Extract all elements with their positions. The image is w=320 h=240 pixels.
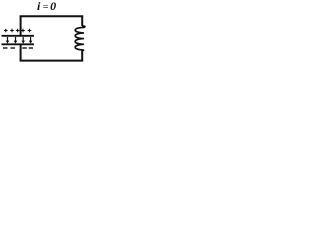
wire bottom horizontal: [20, 60, 84, 62]
plus charges: [4, 29, 31, 33]
svg-text:i = 0: i = 0: [37, 0, 56, 13]
capacitor top plate: [2, 35, 35, 37]
E-field arrow 4: [29, 37, 33, 44]
E-field arrow 1: [6, 37, 10, 44]
wire right lower (coil to bottom-right corner): [81, 51, 83, 61]
E-field arrow 3: [21, 37, 25, 44]
E-field arrow 2: [14, 37, 18, 44]
minus charges: [3, 47, 33, 49]
wire left upper (top plate to top-left corner): [20, 16, 22, 36]
capacitor bottom plate: [2, 43, 35, 45]
wire top horizontal: [20, 15, 84, 17]
wire left lower (bottom plate to bottom-left corner): [20, 44, 22, 60]
wire right upper (top-right corner to coil): [81, 16, 83, 26]
inductor L coil: [75, 26, 85, 51]
